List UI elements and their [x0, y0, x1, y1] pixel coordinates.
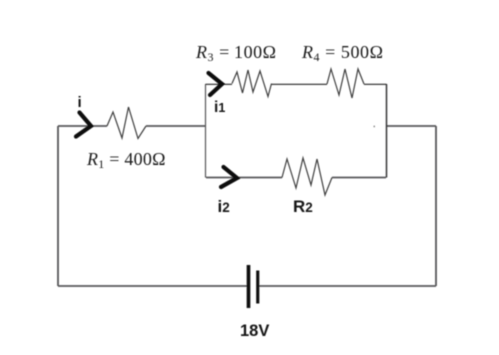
svg-text:R2: R2: [293, 197, 313, 216]
svg-text:18V: 18V: [240, 322, 269, 340]
svg-text:R3 = 100Ω: R3 = 100Ω: [195, 42, 277, 64]
svg-text:i1: i1: [214, 99, 225, 116]
svg-text:i2: i2: [218, 197, 230, 216]
svg-text:R1 = 400Ω: R1 = 400Ω: [86, 149, 166, 171]
svg-text:i: i: [78, 94, 82, 111]
svg-text:R4 = 500Ω: R4 = 500Ω: [301, 42, 384, 64]
